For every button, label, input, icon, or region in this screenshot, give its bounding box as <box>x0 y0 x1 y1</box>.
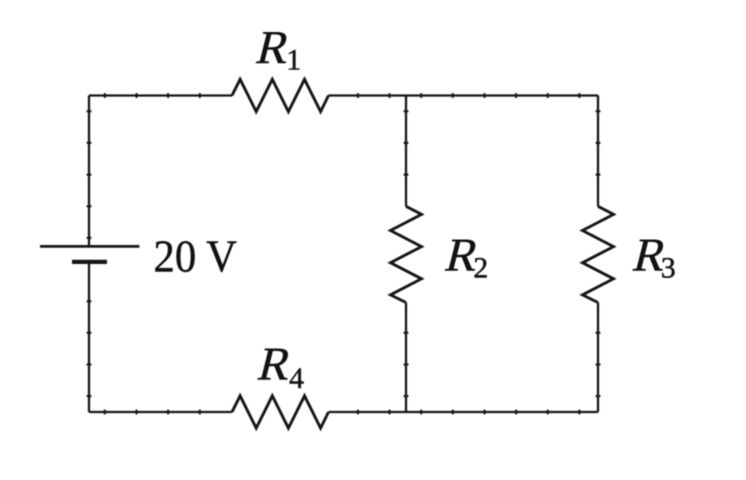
battery V1 (20 V source) plates <box>40 246 139 262</box>
resistor R1 (zigzag, top rail) <box>232 79 329 111</box>
wire: top rail middle segment (R1 to node A) <box>329 94 407 96</box>
svg-text:3: 3 <box>661 251 676 284</box>
resistor R2 (zigzag, middle branch) <box>391 206 422 302</box>
svg-text:4: 4 <box>289 362 304 395</box>
wire: left rail upper (top-left corner down to battery + plate) <box>88 96 90 246</box>
wire tick marks (grid ticks along wires) <box>87 93 601 414</box>
wire: right rail upper (top-right corner down to R3) <box>597 96 599 207</box>
label R1 <box>251 21 301 76</box>
node B (junction of R4, R2, R3 bottom) <box>405 411 407 413</box>
resistor R4 (zigzag, bottom rail) <box>232 396 329 428</box>
wire: right rail lower (R3 down to bottom-right corner) <box>597 303 599 413</box>
wire: middle branch lower (R2 down to node B) <box>405 303 407 413</box>
wire: bottom rail middle segment (R4 to node B) <box>329 411 407 413</box>
wire: bottom rail left segment (bottom-left corner to R4) <box>89 411 232 413</box>
wire: bottom rail right segment (node B to bottom-right corner) <box>406 411 598 413</box>
wire: middle branch upper (node A down to R2) <box>405 96 407 207</box>
label R3 <box>628 229 676 284</box>
battery long (+) plate <box>40 245 139 248</box>
label R2 <box>440 229 488 284</box>
resistor R3 (zigzag, right rail) <box>583 206 614 302</box>
battery short (-) plate <box>72 260 107 264</box>
svg-text:20 V: 20 V <box>154 230 238 281</box>
wire: top rail right segment (node A to top-right corner) <box>406 94 598 96</box>
wire: top rail left segment (top-left corner to R1) <box>89 94 232 96</box>
wire: left rail lower (battery - plate down to bottom-left corner) <box>88 264 90 413</box>
svg-text:1: 1 <box>286 44 301 77</box>
label R4 <box>253 338 304 395</box>
svg-text:2: 2 <box>473 251 488 284</box>
node A (junction of R1, R2, R3 top) <box>405 94 407 96</box>
